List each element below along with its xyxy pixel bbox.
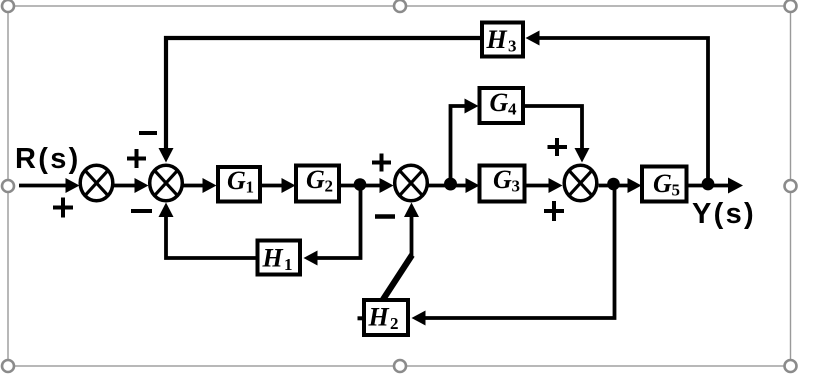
sign + left-bottom of S4 (544, 201, 564, 221)
block G3 (480, 165, 525, 202)
block G2 (296, 165, 339, 202)
wire S2 to block G1 (184, 178, 217, 193)
wire G5 to output Y(s) (688, 178, 743, 194)
wire G2 to S3 (341, 178, 394, 193)
svg-text:3: 3 (512, 177, 521, 196)
svg-text:3: 3 (508, 37, 517, 56)
svg-text:2: 2 (325, 177, 334, 196)
sign + left-top of S3 (372, 154, 391, 172)
sign + left-top of S2 (127, 149, 146, 168)
svg-text:Y(s): Y(s) (692, 198, 756, 230)
svg-text:G: G (306, 165, 325, 194)
sign - bottom of S2 (131, 209, 152, 213)
wire H1 output left and up into bottom of S2 (159, 203, 257, 259)
svg-text:G: G (653, 169, 672, 198)
sign + top of S4 (548, 138, 568, 156)
wire S3 to block G3 (429, 178, 480, 193)
node junction dot after G5 (702, 178, 715, 191)
svg-text:2: 2 (390, 314, 399, 333)
svg-text:G: G (227, 166, 246, 195)
svg-text:G: G (490, 88, 509, 117)
block H1 (258, 241, 301, 275)
summing junction S3 (395, 165, 428, 201)
svg-text:1: 1 (284, 255, 293, 274)
wire feedback H2: node after S4 down and left into H2 (412, 184, 615, 326)
block G1 (218, 166, 260, 202)
wire G3 to S4 (526, 178, 563, 193)
wire stub left of H2 (358, 316, 364, 320)
wire S1 to S2 (114, 178, 149, 193)
block H2 (364, 300, 408, 335)
svg-text:H: H (262, 244, 284, 273)
block G5 (642, 167, 687, 202)
svg-text:H: H (368, 303, 390, 332)
summing junction S1 (80, 165, 113, 201)
svg-text:G: G (493, 165, 512, 194)
wire input R(s) to summing junction S1 (19, 178, 80, 193)
wire feedback H1: node after G2 down and left into H1 (304, 184, 361, 266)
node junction dot after S3 (444, 178, 457, 191)
svg-text:R(s): R(s) (15, 143, 81, 175)
svg-text:4: 4 (508, 100, 517, 119)
node junction dot after G2 (354, 178, 367, 191)
wire S4 to block G5 (599, 178, 642, 193)
node Y(s) output label (692, 198, 756, 230)
summing junction S2 (150, 165, 183, 201)
sign + input of S1 (53, 198, 73, 218)
summing junction S4 (564, 165, 597, 201)
sign - bottom of S3 (375, 214, 395, 219)
wire feedback H3: node after G5 up and left into H3 (526, 31, 709, 185)
node junction dot after S4 (607, 178, 620, 191)
block G4 (480, 88, 524, 123)
sign - top of S2 (139, 131, 157, 135)
wire H2 output diagonal up into bottom of S3 (383, 203, 419, 300)
wire G4 to top of S4 (523, 106, 590, 163)
svg-text:H: H (486, 25, 508, 54)
wire G1 to G2 (262, 178, 296, 193)
wire branch up to G4 (451, 99, 479, 185)
svg-text:5: 5 (672, 181, 681, 200)
wire H3 output left and down into top of S2 (159, 38, 481, 163)
block H3 (482, 23, 523, 57)
svg-text:1: 1 (246, 178, 255, 197)
node R(s) input label (15, 143, 81, 175)
